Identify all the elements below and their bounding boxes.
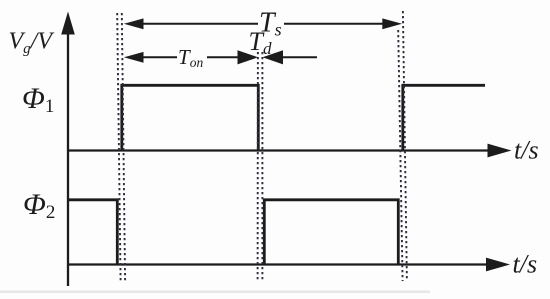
Ts dimension right arrowhead xyxy=(382,18,402,29)
top axis arrowhead xyxy=(488,144,512,158)
dotted line pair 3 right xyxy=(403,11,407,281)
bottom time axis xyxy=(68,263,488,265)
svg-text:Vg/V: Vg/V xyxy=(9,29,55,58)
Ts dimension line left segment xyxy=(142,23,258,25)
scan artifact streak bottom xyxy=(0,291,430,293)
vertical axis (Vg axis) xyxy=(67,30,69,286)
dotted line pair 1 right xyxy=(122,13,125,281)
waveform phi2 pulse 1 xyxy=(68,200,117,264)
dotted line pair 1 left xyxy=(117,13,120,281)
Ton dimension line left segment xyxy=(142,56,177,58)
Td dimension left-pointing arrowhead xyxy=(263,50,284,64)
Ton dimension line right segment xyxy=(207,56,240,58)
Ts dimension left arrowhead xyxy=(124,18,144,29)
svg-text:t/s: t/s xyxy=(514,136,539,165)
waveform phi1 pulse 2 xyxy=(403,85,485,150)
dotted line pair 2 right xyxy=(261,52,263,281)
waveform phi1 pulse 1 xyxy=(122,85,258,150)
Ton dimension left arrowhead xyxy=(124,52,144,63)
bottom axis arrowhead xyxy=(486,258,510,272)
vertical axis arrowhead xyxy=(61,12,75,35)
svg-text:t/s: t/s xyxy=(513,250,538,279)
Ts dimension line right segment xyxy=(284,23,384,25)
top time axis xyxy=(68,149,489,151)
dotted line pair 3 left xyxy=(398,30,402,281)
dotted line pair 2 left xyxy=(257,52,259,281)
Td dimension tail line xyxy=(282,56,317,58)
waveform phi2 pulse 2 xyxy=(264,200,398,264)
Ton dimension right arrowhead (converging at dead-time) xyxy=(238,50,259,64)
